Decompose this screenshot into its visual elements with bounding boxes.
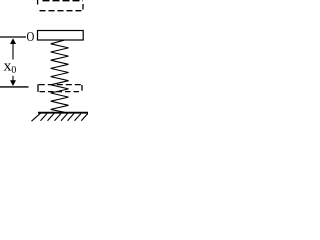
svg-text:0: 0	[11, 64, 16, 76]
svg-text:O: O	[27, 30, 35, 45]
